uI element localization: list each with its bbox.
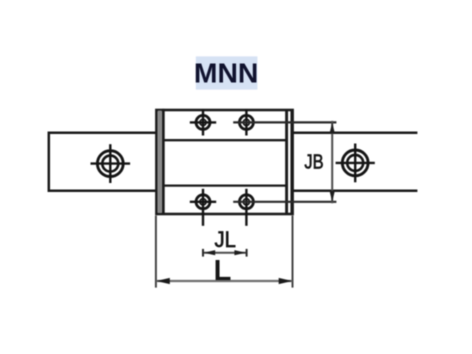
- block screw hole bottom-left: [190, 189, 216, 226]
- svg-text:L: L: [214, 255, 232, 286]
- title MNN text: [194, 57, 259, 88]
- JL label: [215, 227, 236, 252]
- L extension line right: [292, 216, 294, 288]
- svg-text:JB: JB: [304, 150, 323, 173]
- L label: [214, 255, 232, 286]
- block left end cap: [158, 109, 163, 215]
- block screw hole bottom-right: [239, 189, 253, 226]
- rail: [49, 133, 418, 191]
- block screw hole top-left: [190, 109, 216, 135]
- block body: [156, 110, 292, 214]
- svg-text:JL: JL: [215, 227, 236, 252]
- JB top extension line: [233, 121, 336, 123]
- block right end cap: [287, 109, 292, 215]
- title MNN highlight: [196, 56, 258, 89]
- block inner line top: [163, 139, 286, 141]
- JB bottom extension line: [233, 201, 336, 203]
- L extension line left: [155, 216, 157, 288]
- JB dimension line: [330, 121, 335, 203]
- block screw hole top-right: [239, 109, 253, 135]
- rail hole left: [91, 144, 131, 183]
- JL dimension line: [203, 249, 247, 257]
- L dimension line: [156, 278, 292, 284]
- JB label: [304, 150, 323, 173]
- svg-text:MNN: MNN: [194, 57, 259, 88]
- block inner line bottom: [163, 184, 286, 186]
- rail hole right: [336, 144, 375, 183]
